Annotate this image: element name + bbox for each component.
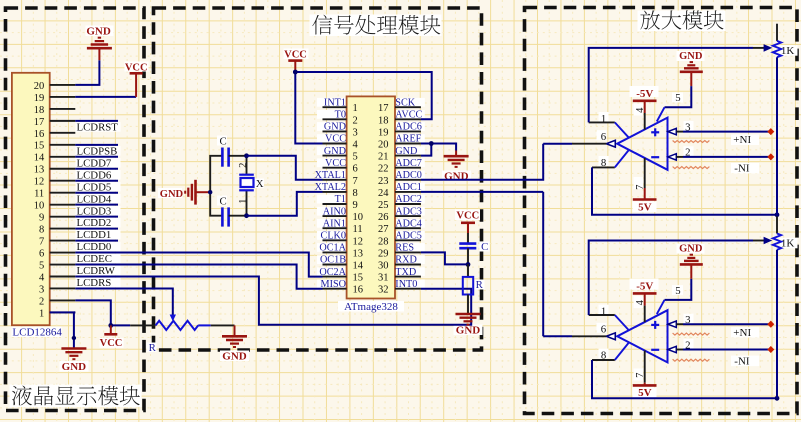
pin 7 with 5V [644,158,646,188]
wire LCDRW (LCD pin5) to MCU MISO [75,265,322,289]
potentiometer 1K [776,216,778,233]
svg-text:8: 8 [39,225,44,236]
svg-text:14: 14 [353,261,364,272]
svg-text:5V: 5V [638,387,652,399]
svg-text:LCDPSB: LCDPSB [77,145,118,157]
svg-text:6: 6 [353,164,358,175]
svg-text:3: 3 [39,284,44,295]
svg-text:5: 5 [675,285,680,297]
svg-text:3: 3 [353,127,358,138]
no-connect squiggle pin3 [673,333,710,335]
svg-text:3: 3 [685,314,690,326]
power ground GND (top of LCD box, inverted earth) [87,38,112,61]
pin 3 (+ input) [668,321,676,327]
svg-text:32: 32 [378,285,389,296]
svg-text:GND: GND [679,244,703,255]
no-connect squiggle pin2 [673,359,710,361]
power VCC (top of MCU) [288,61,302,72]
input terminal +NI [767,128,774,135]
potentiometer R (LCD contrast) [130,315,234,331]
svg-text:VCC: VCC [100,338,123,349]
svg-text:23: 23 [378,176,389,187]
svg-text:1K: 1K [781,45,795,57]
svg-text:15: 15 [353,273,364,284]
svg-text:31: 31 [378,273,389,284]
svg-text:VCC: VCC [125,62,148,73]
LCD pin stubs pins 1-20 [50,85,76,312]
wire RES pin to RC junction [421,252,468,264]
svg-text:1: 1 [601,113,606,125]
svg-text:R: R [476,279,484,291]
svg-text:11: 11 [353,224,363,235]
input terminal -NI [767,153,774,160]
capacitor C (bottom) [222,207,246,226]
svg-text:RXD: RXD [395,255,417,266]
junction dot [72,336,76,340]
svg-text:+NI: +NI [733,327,751,339]
svg-text:5V: 5V [638,202,652,214]
svg-text:10: 10 [34,201,45,212]
svg-text:13: 13 [353,248,364,259]
no-connect squiggle pin3 [673,141,710,143]
MCU IC body ATmage328 [347,96,395,298]
svg-text:8: 8 [601,349,606,361]
svg-text:GND: GND [86,26,111,38]
svg-text:-5V: -5V [636,280,653,292]
svg-text:VCC: VCC [456,211,479,222]
svg-text:8: 8 [601,157,606,169]
svg-text:6: 6 [601,323,607,335]
input terminal +NI [767,321,774,328]
svg-text:-NI: -NI [734,355,750,367]
LCD module IC body LCD12864 [12,73,50,325]
wire LCD pin19 to VCC [75,96,136,98]
svg-text:SCK: SCK [395,97,415,108]
feedback rail pin8 to bottom [592,167,777,214]
svg-text:18: 18 [34,105,45,116]
right vertical rail connecting pots and rails [776,57,778,216]
svg-text:5: 5 [675,92,680,104]
svg-text:ADC6: ADC6 [395,122,422,133]
svg-text:INT1: INT1 [324,97,346,108]
svg-text:RES: RES [395,243,414,254]
svg-text:R: R [149,342,157,354]
junction dots crystal [244,153,249,158]
svg-text:GND: GND [62,361,87,373]
dashed border: signal processing module box [154,8,482,350]
svg-text:LCDEC: LCDEC [77,253,112,265]
crystal loop left side [210,156,222,216]
pin 3 (+ input) [668,128,676,134]
svg-text:INT0: INT0 [395,279,417,290]
ground GND (below R) [456,314,481,325]
svg-text:17: 17 [378,103,389,114]
svg-text:26: 26 [378,212,389,223]
op-amp plus input marker [651,324,659,326]
pin 6 line [572,143,606,145]
svg-text:AIN0: AIN0 [323,206,346,217]
junction node at LCD VCC [108,323,113,328]
svg-text:AIN1: AIN1 [323,218,346,229]
op-amp minus input marker [651,156,659,158]
svg-text:4: 4 [39,272,45,283]
svg-text:AVCC: AVCC [395,110,422,121]
svg-text:10: 10 [353,212,364,223]
svg-text:1K: 1K [781,238,795,250]
svg-text:29: 29 [378,248,389,259]
pin 4 with -5V [633,100,657,103]
svg-text:11: 11 [34,189,44,200]
svg-text:AREF: AREF [395,134,421,145]
svg-text:GND: GND [324,122,346,133]
svg-text:2: 2 [238,163,249,168]
svg-text:22: 22 [378,164,389,175]
svg-text:13: 13 [34,165,45,176]
wire VCC to AVCC (pin 18) [295,72,431,119]
svg-text:+NI: +NI [733,134,751,146]
svg-text:1: 1 [601,305,606,317]
svg-text:GND: GND [395,146,417,157]
svg-text:LCDD6: LCDD6 [77,169,112,181]
svg-text:2: 2 [353,115,358,126]
potentiometer 1K [776,24,778,41]
svg-text:LCDD4: LCDD4 [77,193,112,205]
module title signal processing module / 信号处理模块 [312,15,440,35]
svg-text:17: 17 [34,117,45,128]
svg-text:TXD: TXD [395,267,416,278]
svg-text:ATmage328: ATmage328 [344,301,398,313]
svg-text:CLK0: CLK0 [321,231,346,242]
MCU left pin lines 1-16 [323,107,347,289]
pin 1 line [589,121,615,123]
svg-text:1: 1 [238,199,249,204]
feedback rail pin1 to top [589,241,753,316]
svg-text:LCDD3: LCDD3 [77,205,112,217]
svg-text:15: 15 [34,141,45,152]
wire LCD pin3 to potentiometer wiper [75,289,173,315]
svg-text:6: 6 [601,131,607,143]
pin 6 line [572,335,606,337]
svg-text:VCC: VCC [284,49,307,60]
svg-text:X: X [256,178,264,190]
LCD pin numbers 1-20 [34,81,45,319]
svg-text:16: 16 [353,285,364,296]
power VCC (below LCD, inverted) [104,325,117,334]
pin 1 line [589,314,615,316]
MCU right pin lines 17-32 [395,107,421,289]
svg-text:LCDD0: LCDD0 [77,241,112,253]
junction below C [466,262,471,267]
svg-text:MISO: MISO [321,279,346,290]
pin 7 with 5V [644,351,646,383]
svg-text:ADC0: ADC0 [395,170,422,181]
svg-text:ADC3: ADC3 [395,206,422,217]
capacitor C (top) [222,148,246,167]
pin 4 with -5V [633,292,657,295]
svg-text:21: 21 [378,152,389,163]
ground GND (below LCD pin1) [61,349,86,360]
svg-text:OC1A: OC1A [319,243,346,254]
ground GND (right of MCU AREF) [444,151,469,167]
svg-text:ADC1: ADC1 [395,182,422,193]
wire LCD pin1 to GND [74,311,75,313]
svg-text:C: C [481,241,488,253]
input terminal -NI [767,346,774,353]
svg-text:2: 2 [685,339,690,351]
svg-text:2: 2 [685,147,690,159]
svg-text:19: 19 [378,127,389,138]
module title LCD display module / 液晶显示模块 [12,386,140,406]
svg-text:LCD12864: LCD12864 [12,326,62,338]
svg-text:GND: GND [456,324,481,336]
svg-text:24: 24 [378,188,389,199]
svg-text:7: 7 [635,185,646,190]
wire crystal bottom to XTAL2 [247,192,323,216]
ground GND (right of pot R) [222,325,247,347]
resistor R (pull, rectangle style) [463,264,473,313]
no-connect squiggle pin2 [673,167,710,169]
svg-text:GND: GND [679,51,703,62]
svg-text:1: 1 [353,103,358,114]
pin 6 output arrow [606,140,615,147]
power VCC (above C near MCU) [461,223,475,233]
svg-text:27: 27 [378,224,389,235]
svg-text:7: 7 [353,176,358,187]
svg-text:3: 3 [685,121,690,133]
svg-text:LCDRW: LCDRW [77,265,116,277]
wire top op-amp output to ADC0 [543,143,572,145]
svg-text:4: 4 [353,140,359,151]
svg-text:28: 28 [378,236,389,247]
svg-text:-5V: -5V [636,88,653,100]
ground GND (crystal, rotated left) [185,180,210,205]
svg-text:18: 18 [378,115,389,126]
svg-text:4: 4 [635,299,646,305]
op-amp UA2 triangle [617,310,667,362]
wire LCD pin2 down to VCC node [75,300,130,325]
crystal X [239,156,254,216]
svg-text:25: 25 [378,200,389,211]
svg-text:GND: GND [222,350,247,362]
svg-text:5: 5 [353,152,358,163]
svg-text:4: 4 [635,107,646,113]
svg-text:2: 2 [39,296,44,307]
wire LCDEC (LCD pin6) to MCU OC2A [75,253,322,277]
svg-text:LCDD5: LCDD5 [77,181,112,193]
svg-text:6: 6 [39,248,44,259]
svg-text:20: 20 [34,81,45,92]
feedback rail pin8 to bottom [592,360,777,398]
op-amp plus input marker [651,131,659,133]
svg-text:12: 12 [353,236,364,247]
svg-text:OC2A: OC2A [319,267,346,278]
svg-text:14: 14 [34,153,45,164]
svg-text:T1: T1 [335,194,346,205]
dashed border: LCD display module box [6,8,145,411]
pin 6 output arrow [606,333,615,340]
svg-text:ADC2: ADC2 [395,194,422,205]
pin 8 line [592,166,615,168]
wire bottom op-amp output to ADC1 [543,335,572,337]
arrow into potentiometer wiper [764,44,773,52]
feedback rail pin1 to top [589,48,753,123]
svg-text:LCDD7: LCDD7 [77,157,112,169]
svg-text:16: 16 [34,129,45,140]
capacitor C (decoupling at MCU right) [459,233,476,264]
svg-text:LCDRST: LCDRST [77,121,119,133]
svg-text:ADC5: ADC5 [395,231,422,242]
svg-text:T0: T0 [335,110,346,121]
pin 2 (- input) [668,346,676,352]
svg-text:7: 7 [635,373,646,378]
svg-text:7: 7 [39,236,44,247]
svg-text:LCDD1: LCDD1 [77,229,112,241]
dashed border: amplifier module box [525,8,798,414]
op-amp UA1 triangle [617,118,667,170]
wire AREF + GND pins to earth [421,144,456,151]
svg-text:8: 8 [353,188,358,199]
svg-text:30: 30 [378,261,389,272]
power VCC (top of LCD box) [130,73,143,97]
pin 8 line [592,359,615,361]
svg-text:C: C [220,135,227,147]
svg-text:LCDD2: LCDD2 [77,217,112,229]
svg-text:-NI: -NI [734,163,750,175]
MCU pin numbers [353,103,390,296]
svg-text:20: 20 [378,140,389,151]
svg-text:VCC: VCC [325,158,346,169]
junction at VCC [293,70,298,75]
svg-text:C: C [220,195,227,207]
svg-text:12: 12 [34,177,45,188]
svg-text:9: 9 [39,213,44,224]
svg-text:ADC4: ADC4 [395,218,422,229]
wire VCC to MCU pin4 VCC [295,72,322,144]
svg-text:1: 1 [39,308,44,319]
module title amplifier module / 放大模块 [640,10,723,29]
svg-text:5: 5 [39,260,44,271]
short net-label wires pins 7-17 [75,121,118,241]
wire LCDRS (LCD pin4) to MCU INT0 (bottom route) [75,277,471,325]
wire LCD pin20 to GND [75,60,99,85]
svg-text:ADC7: ADC7 [395,158,422,169]
op-amp minus input marker [651,349,659,351]
svg-text:OC1B: OC1B [320,255,346,266]
svg-text:LCDRS: LCDRS [77,277,112,289]
svg-text:GND: GND [324,146,346,157]
svg-text:GND: GND [160,189,184,200]
svg-text:9: 9 [353,200,358,211]
svg-text:19: 19 [34,93,45,104]
pin 2 (- input) [668,154,676,160]
svg-text:VCC: VCC [325,134,346,145]
arrow into potentiometer wiper [764,237,773,245]
wire crystal top to XTAL1 [247,156,323,180]
